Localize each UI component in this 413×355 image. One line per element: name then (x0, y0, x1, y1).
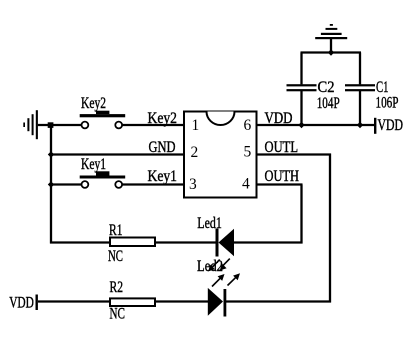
svg-text:3: 3 (189, 176, 197, 193)
svg-text:NC: NC (110, 306, 126, 323)
svg-text:5: 5 (244, 143, 252, 160)
svg-text:OUTL: OUTL (265, 139, 299, 156)
svg-text:Key2: Key2 (148, 110, 178, 127)
svg-text:NC: NC (108, 248, 123, 265)
svg-text:C2: C2 (318, 79, 335, 96)
svg-text:GND: GND (149, 139, 176, 156)
svg-text:2: 2 (191, 144, 199, 161)
svg-text:104P: 104P (317, 95, 340, 112)
svg-text:VDD: VDD (378, 117, 404, 134)
svg-text:Key1: Key1 (81, 156, 106, 173)
svg-text:C1: C1 (376, 79, 389, 96)
svg-text:R1: R1 (109, 222, 123, 239)
svg-text:4: 4 (242, 175, 250, 192)
svg-text:OUTH: OUTH (265, 168, 300, 185)
svg-text:Led1: Led1 (197, 215, 222, 232)
svg-text:Key2: Key2 (81, 95, 106, 112)
svg-text:6: 6 (244, 117, 252, 134)
svg-text:R2: R2 (110, 279, 124, 296)
svg-text:Key1: Key1 (148, 168, 178, 185)
svg-text:106P: 106P (376, 95, 399, 112)
svg-text:1: 1 (192, 117, 200, 134)
svg-text:VDD: VDD (265, 110, 293, 127)
svg-text:VDD: VDD (9, 295, 34, 312)
